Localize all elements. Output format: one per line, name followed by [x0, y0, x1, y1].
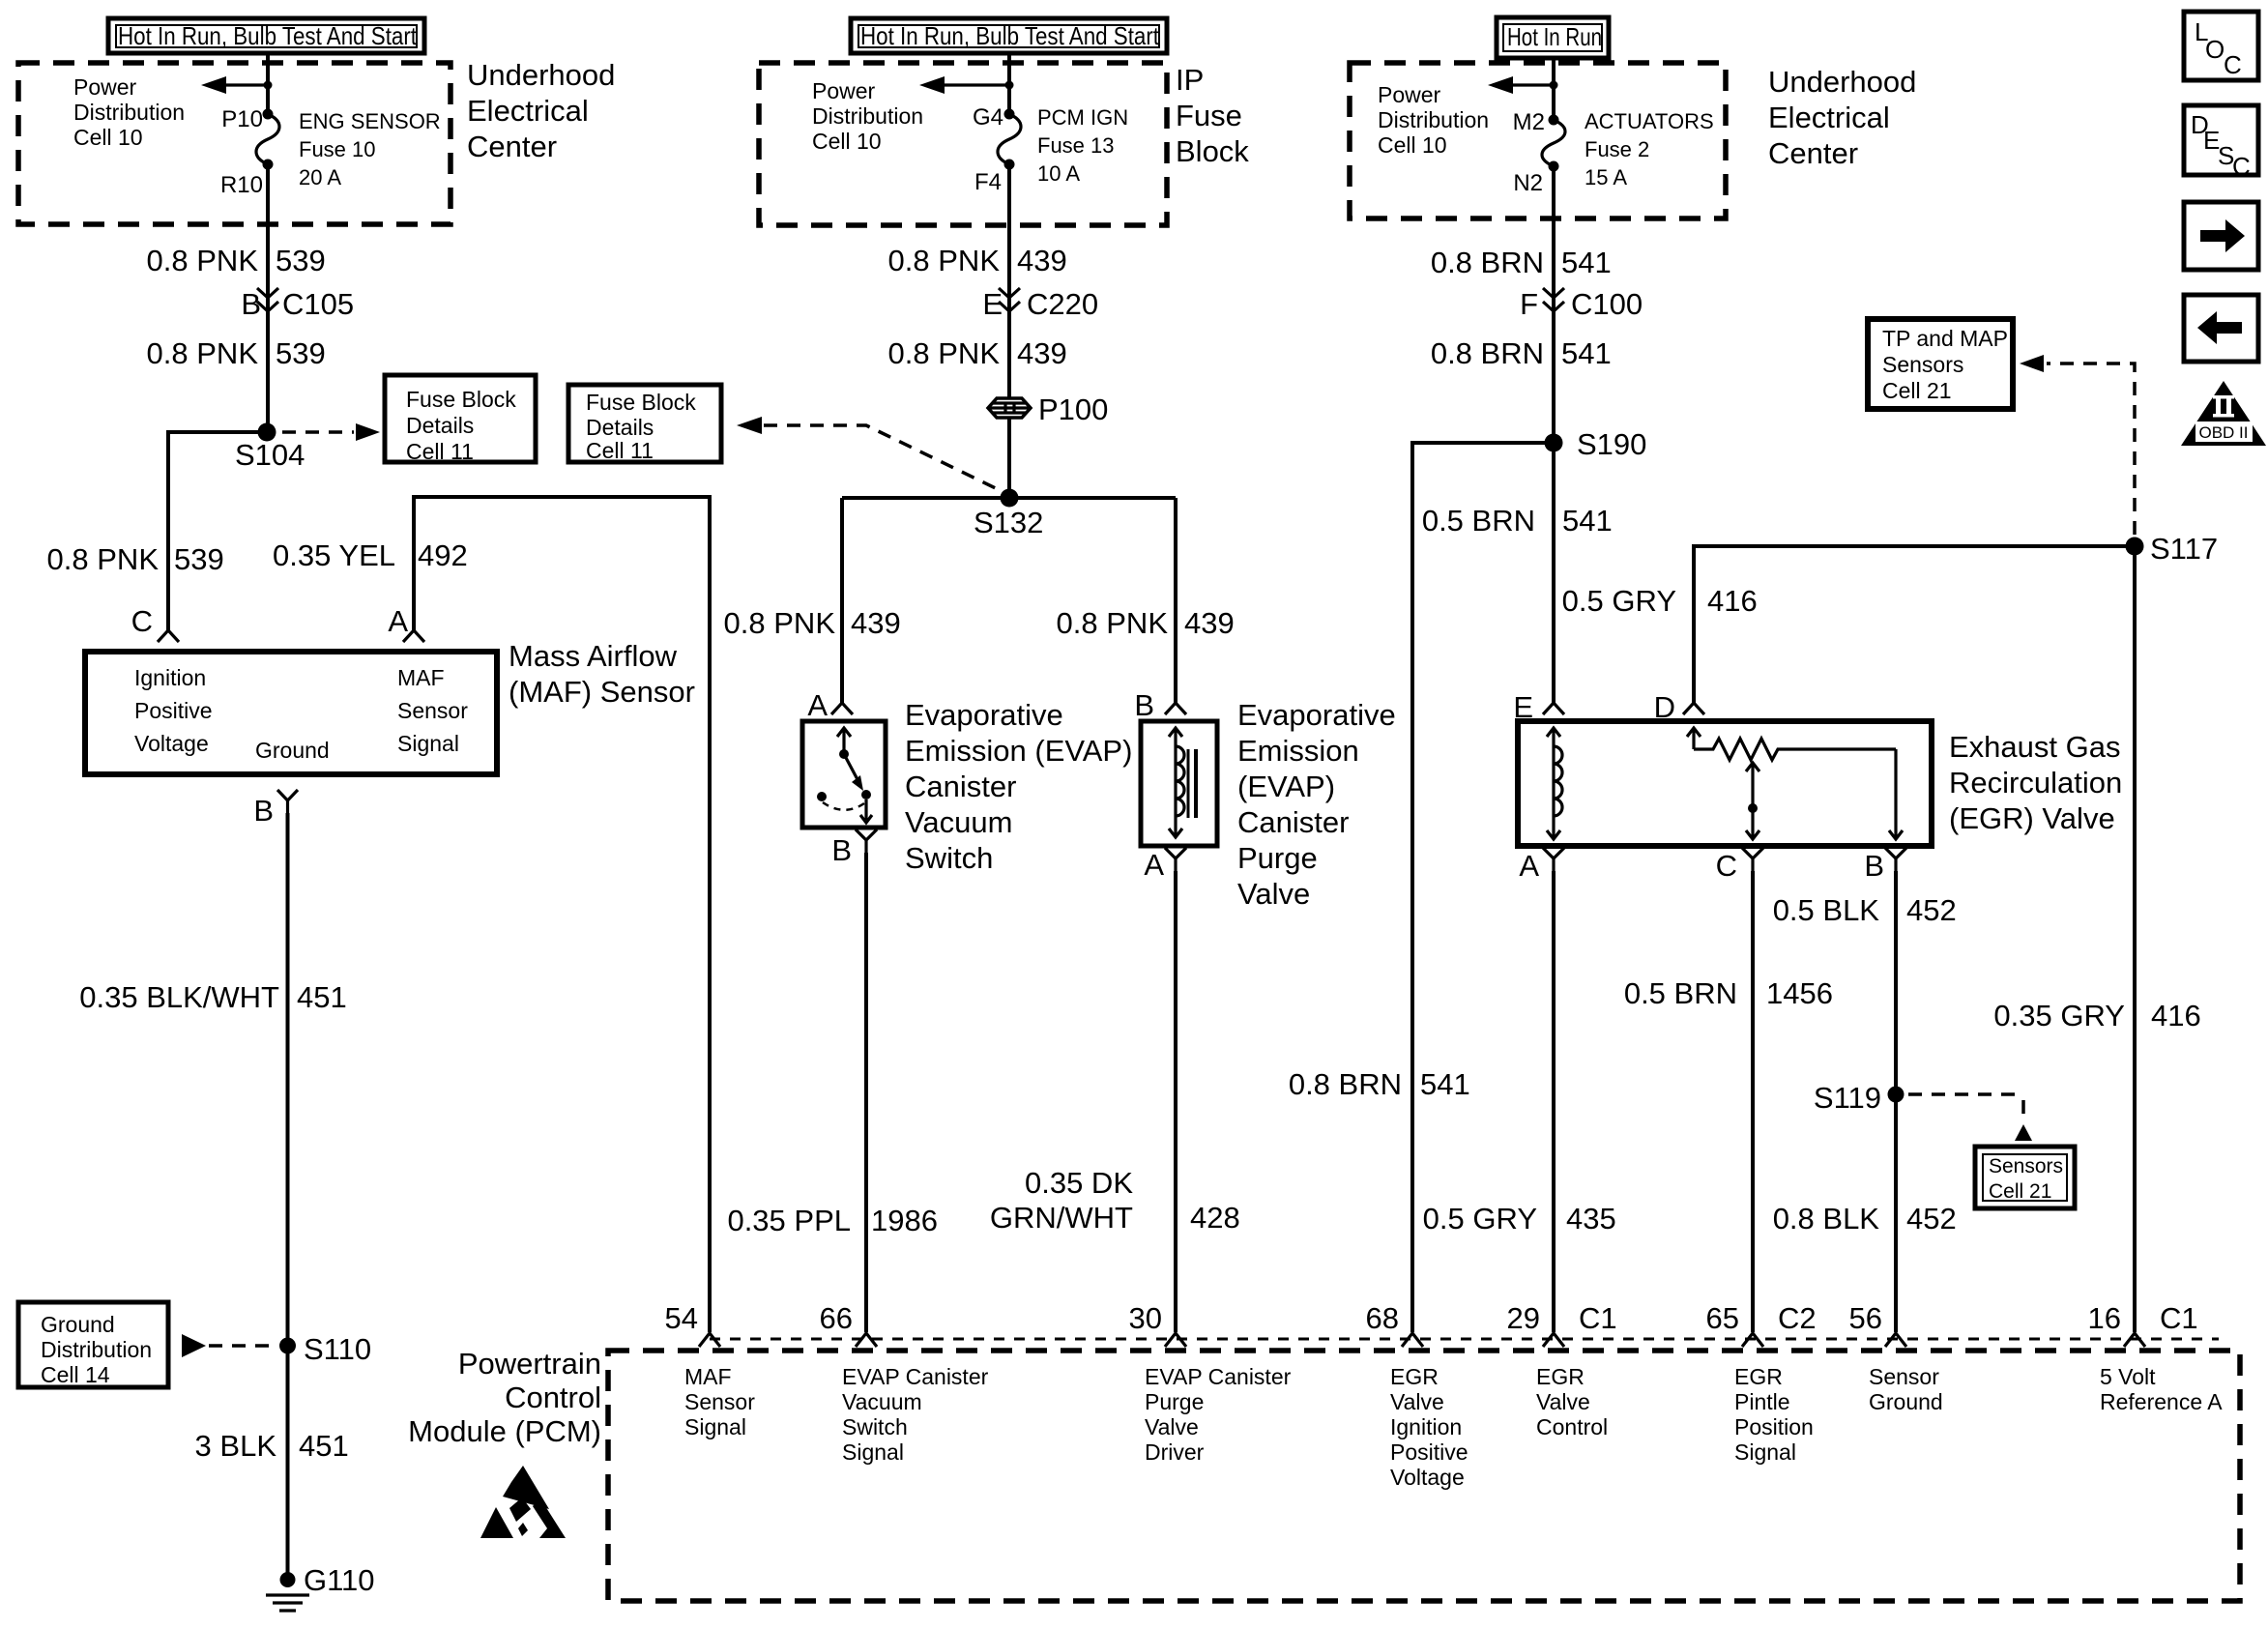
svg-text:Signal: Signal — [1734, 1439, 1796, 1465]
svg-text:0.8 PNK: 0.8 PNK — [147, 336, 259, 370]
pin D of EGR — [1683, 703, 1704, 714]
svg-text:Underhood: Underhood — [1768, 65, 1916, 99]
dashed arrow from S132 to second Fuse Block box — [737, 417, 762, 434]
svg-text:29: 29 — [1507, 1301, 1540, 1335]
pin 16 C1 chevron — [2124, 1333, 2145, 1347]
svg-text:0.8 PNK: 0.8 PNK — [147, 244, 259, 277]
svg-text:Valve: Valve — [1390, 1389, 1444, 1414]
svg-text:Cell 10: Cell 10 — [812, 129, 882, 154]
pin B of MAF — [253, 790, 298, 828]
svg-text:EVAP Canister: EVAP Canister — [842, 1364, 989, 1389]
svg-text:P100: P100 — [1038, 392, 1108, 426]
pin 29 label: EGR Valve Control — [1536, 1364, 1608, 1439]
fuse F2 ACTUATORS 15A — [1513, 109, 1714, 196]
pin 56 label: Sensor Ground — [1869, 1364, 1943, 1414]
splice S190 — [1545, 434, 1563, 452]
svg-text:Cell 11: Cell 11 — [406, 439, 474, 464]
LOC icon box — [2184, 12, 2258, 80]
label: Powertrain Control Module (PCM) — [408, 1347, 601, 1448]
pin 16 label: 5 Volt Reference A — [2100, 1364, 2223, 1414]
PCM connector thin dashed line — [710, 1338, 2219, 1341]
wire: S104 left branch down to MAF pin C — [168, 432, 267, 630]
dashed arrow to S110 — [182, 1334, 206, 1357]
label: Exhaust Gas Recirculation (EGR) Valve — [1949, 730, 2122, 835]
label box: Hot In Run, Bulb Test And Start (left) — [108, 18, 424, 53]
pin B of EGR — [1864, 848, 1906, 883]
connector C100 pin F — [1520, 287, 1643, 321]
wire: MAF A signal up and over to PCM pin 54 — [414, 497, 710, 1332]
svg-text:0.8 PNK: 0.8 PNK — [1057, 606, 1169, 640]
svg-text:0.8 PNK: 0.8 PNK — [888, 336, 1001, 370]
svg-text:EVAP Canister: EVAP Canister — [1145, 1364, 1292, 1389]
svg-text:54: 54 — [665, 1301, 698, 1335]
svg-text:Ignition: Ignition — [134, 665, 206, 690]
pin C of EGR — [1716, 848, 1763, 883]
svg-text:68: 68 — [1366, 1301, 1399, 1335]
svg-text:3 BLK: 3 BLK — [195, 1429, 277, 1463]
splice S132 — [1001, 489, 1019, 508]
wire: vacuum switch B to PCM 66 — [864, 853, 868, 1332]
svg-text:C100: C100 — [1571, 287, 1643, 321]
svg-text:Emission: Emission — [1237, 734, 1359, 768]
grommet P100 — [988, 392, 1108, 426]
svg-text:0.35 BLK/WHT: 0.35 BLK/WHT — [79, 980, 279, 1014]
pin 56 chevron — [1885, 1333, 1906, 1347]
svg-text:451: 451 — [299, 1429, 349, 1463]
svg-text:Distribution: Distribution — [1378, 107, 1489, 132]
svg-text:416: 416 — [1707, 584, 1758, 618]
label box: Ground Distribution Cell 14 — [18, 1302, 168, 1387]
svg-text:B: B — [831, 833, 852, 867]
svg-text:Distribution: Distribution — [73, 100, 185, 125]
svg-text:G4: G4 — [973, 104, 1003, 131]
wire: MAF ground down to G110 — [286, 813, 290, 1580]
svg-text:0.35 GRY: 0.35 GRY — [1993, 999, 2125, 1032]
OBD II icon — [2181, 381, 2266, 446]
svg-text:Driver: Driver — [1145, 1439, 1205, 1465]
svg-text:Power: Power — [812, 78, 876, 103]
svg-text:541: 541 — [1420, 1067, 1470, 1101]
svg-text:Details: Details — [586, 415, 654, 440]
svg-text:A: A — [1519, 849, 1539, 883]
svg-text:Fuse Block: Fuse Block — [586, 390, 696, 415]
wire: 0.8 PNK 539 from fuse to S104 — [266, 164, 270, 432]
svg-text:S104: S104 — [235, 438, 305, 472]
EVAP canister vacuum switch box — [802, 721, 886, 828]
PCM dashed box — [608, 1351, 2240, 1601]
dashed box: IP Fuse Block — [759, 63, 1167, 225]
svg-text:56: 56 — [1849, 1301, 1882, 1335]
svg-text:Center: Center — [467, 130, 557, 163]
svg-text:1456: 1456 — [1766, 976, 1833, 1010]
svg-text:452: 452 — [1906, 1202, 1957, 1236]
svg-text:Valve: Valve — [1145, 1414, 1199, 1439]
pin A of vacuum switch — [831, 703, 853, 714]
svg-text:Ground: Ground — [1869, 1389, 1943, 1414]
wire: S132 horizontal to EVAP branches — [842, 496, 1176, 500]
wire: EGR A to PCM 29 — [1552, 871, 1556, 1332]
fuse F13 PCM IGN 10A — [973, 104, 1128, 195]
label box: Fuse Block Details Cell 11 (first) — [385, 375, 536, 464]
svg-text:Center: Center — [1768, 136, 1858, 170]
svg-text:M2: M2 — [1513, 109, 1545, 135]
svg-text:Voltage: Voltage — [1390, 1465, 1465, 1490]
svg-text:E: E — [982, 287, 1003, 321]
svg-text:Ignition: Ignition — [1390, 1414, 1462, 1439]
dashed box: Underhood Electrical Center (left) — [18, 63, 451, 224]
svg-text:Valve: Valve — [1237, 877, 1310, 911]
right-arrow icon box — [2184, 202, 2258, 270]
svg-text:439: 439 — [1184, 606, 1235, 640]
svg-text:0.8 BRN: 0.8 BRN — [1431, 246, 1544, 279]
svg-text:Valve: Valve — [1536, 1389, 1590, 1414]
svg-text:0.8 BRN: 0.8 BRN — [1289, 1067, 1402, 1101]
svg-text:439: 439 — [851, 606, 901, 640]
svg-text:G110: G110 — [304, 1563, 375, 1597]
svg-text:0.35 PPL: 0.35 PPL — [727, 1204, 851, 1237]
svg-text:Position: Position — [1734, 1414, 1814, 1439]
pin E of EGR — [1543, 703, 1564, 714]
svg-text:Block: Block — [1176, 134, 1249, 168]
svg-text:539: 539 — [276, 336, 326, 370]
svg-text:Power: Power — [1378, 82, 1441, 107]
pin A of MAF — [403, 630, 424, 642]
svg-text:0.5 BRN: 0.5 BRN — [1624, 976, 1737, 1010]
label box: TP and MAP Sensors Cell 21 — [1868, 319, 2013, 409]
svg-text:Exhaust Gas: Exhaust Gas — [1949, 730, 2120, 764]
svg-text:Sensor: Sensor — [1869, 1364, 1939, 1389]
svg-text:Sensor: Sensor — [684, 1389, 755, 1414]
pin 30 chevron — [1165, 1333, 1186, 1347]
svg-text:Fuse: Fuse — [1176, 99, 1242, 132]
svg-text:Sensors: Sensors — [1989, 1155, 2063, 1177]
svg-text:B: B — [1864, 849, 1884, 883]
pin 66 label: EVAP Canister Vacuum Switch Signal — [842, 1364, 989, 1465]
svg-text:10 A: 10 A — [1037, 161, 1080, 186]
svg-text:0.5 BLK: 0.5 BLK — [1773, 893, 1880, 927]
pin 54 chevron — [699, 1333, 720, 1347]
svg-text:Switch: Switch — [905, 841, 993, 875]
svg-text:428: 428 — [1190, 1201, 1240, 1235]
EGR valve box — [1518, 721, 1932, 846]
svg-text:0.5 BRN: 0.5 BRN — [1422, 504, 1535, 538]
svg-text:Mass Airflow: Mass Airflow — [509, 639, 678, 673]
MAF sensor box — [85, 652, 497, 774]
svg-text:1986: 1986 — [871, 1204, 938, 1237]
svg-text:Fuse 13: Fuse 13 — [1037, 133, 1115, 158]
svg-text:0.35 DK: 0.35 DK — [1025, 1166, 1133, 1200]
svg-text:S132: S132 — [974, 506, 1043, 539]
svg-text:GRN/WHT: GRN/WHT — [990, 1201, 1133, 1235]
svg-text:452: 452 — [1906, 893, 1957, 927]
pin 66 chevron — [856, 1333, 877, 1347]
svg-text:Reference A: Reference A — [2100, 1389, 2223, 1414]
svg-text:S190: S190 — [1577, 427, 1646, 461]
svg-text:Switch: Switch — [842, 1414, 908, 1439]
svg-text:0.8 PNK: 0.8 PNK — [724, 606, 836, 640]
label: Evaporative Emission (EVAP) Canister Purge Valve — [1237, 698, 1396, 911]
svg-text:Signal: Signal — [684, 1414, 746, 1439]
svg-text:451: 451 — [297, 980, 347, 1014]
svg-text:B: B — [241, 287, 261, 321]
svg-text:F4: F4 — [974, 169, 1002, 195]
svg-text:Hot In Run, Bulb Test And Star: Hot In Run, Bulb Test And Start — [118, 21, 418, 50]
svg-text:Underhood: Underhood — [467, 58, 615, 92]
splice S119 — [1888, 1087, 1905, 1103]
svg-text:S110: S110 — [304, 1332, 371, 1366]
svg-text:Sensor: Sensor — [397, 698, 468, 723]
svg-text:435: 435 — [1566, 1202, 1616, 1236]
svg-text:IP: IP — [1176, 63, 1204, 97]
svg-text:Canister: Canister — [905, 770, 1016, 803]
svg-text:492: 492 — [418, 538, 468, 572]
svg-text:MAF: MAF — [684, 1364, 732, 1389]
wire: S117 down to PCM 16 — [2133, 546, 2137, 1332]
svg-text:(EVAP): (EVAP) — [1237, 770, 1335, 803]
label: Power Distribution Cell 10 (middle) — [812, 78, 923, 154]
EVAP canister purge valve box — [1141, 721, 1217, 846]
label: Underhood Electrical Center (right) — [1768, 65, 1916, 170]
svg-text:EGR: EGR — [1734, 1364, 1783, 1389]
svg-text:Hot In Run: Hot In Run — [1507, 22, 1602, 51]
splice S110 — [279, 1338, 296, 1354]
svg-text:15 A: 15 A — [1585, 165, 1627, 189]
svg-text:P10: P10 — [221, 106, 263, 132]
svg-text:Power: Power — [73, 74, 137, 100]
svg-text:Signal: Signal — [842, 1439, 904, 1465]
svg-text:Cell 11: Cell 11 — [586, 438, 654, 463]
ground G110 — [266, 1563, 375, 1611]
svg-text:16: 16 — [2088, 1301, 2121, 1335]
svg-text:A: A — [1144, 848, 1164, 882]
svg-text:541: 541 — [1561, 246, 1612, 279]
wire: branch to EVAP vacuum switch A — [840, 498, 844, 703]
svg-text:66: 66 — [820, 1301, 853, 1335]
svg-text:541: 541 — [1562, 504, 1613, 538]
left-arrow icon box — [2184, 295, 2258, 362]
wire: power distribution branch arrow (left) — [207, 83, 268, 86]
svg-text:C1: C1 — [2160, 1301, 2198, 1335]
svg-text:0.8 PNK: 0.8 PNK — [888, 244, 1001, 277]
wire: 0.8 BRN 541 from fuse through C100 to S190 and EGR E — [1552, 166, 1556, 703]
svg-text:Sensors: Sensors — [1882, 352, 1963, 377]
svg-text:Cell 21: Cell 21 — [1989, 1180, 2051, 1203]
dashed box: Underhood Electrical Center (right) — [1350, 63, 1726, 218]
svg-text:541: 541 — [1561, 336, 1612, 370]
svg-text:C220: C220 — [1027, 287, 1098, 321]
svg-text:ENG SENSOR: ENG SENSOR — [299, 109, 441, 133]
svg-text:Control: Control — [505, 1381, 601, 1414]
svg-text:Signal: Signal — [397, 731, 459, 756]
svg-text:Ground: Ground — [41, 1312, 115, 1337]
svg-text:Module (PCM): Module (PCM) — [408, 1414, 601, 1448]
svg-text:C: C — [2232, 152, 2251, 181]
wire: EGR B to PCM 56 through S119 — [1894, 871, 1898, 1332]
svg-text:Cell 10: Cell 10 — [73, 125, 143, 150]
svg-text:Fuse 2: Fuse 2 — [1585, 137, 1649, 161]
label: Underhood Electrical Center (left) — [467, 58, 615, 163]
svg-text:416: 416 — [2151, 999, 2201, 1032]
connector C220 pin E — [982, 287, 1098, 321]
svg-text:Voltage: Voltage — [134, 731, 209, 756]
svg-text:C1: C1 — [1579, 1301, 1617, 1335]
svg-text:OBD II: OBD II — [2198, 423, 2248, 442]
label box: Hot In Run, Bulb Test And Start (middle) — [851, 18, 1167, 53]
wire: purge valve A to PCM 30 — [1174, 871, 1178, 1332]
svg-text:5 Volt: 5 Volt — [2100, 1364, 2156, 1389]
svg-text:(EGR) Valve: (EGR) Valve — [1949, 801, 2115, 835]
pin 29 C1 chevron — [1543, 1333, 1564, 1347]
svg-text:C105: C105 — [282, 287, 354, 321]
svg-text:Distribution: Distribution — [812, 103, 923, 129]
svg-text:Fuse 10: Fuse 10 — [299, 137, 376, 161]
svg-text:30: 30 — [1129, 1301, 1162, 1335]
label box: Fuse Block Details Cell 11 (second) — [568, 385, 721, 463]
svg-text:Cell 14: Cell 14 — [41, 1362, 110, 1387]
label: IP Fuse Block — [1176, 63, 1249, 168]
svg-text:B: B — [253, 794, 274, 828]
svg-text:Evaporative: Evaporative — [905, 698, 1063, 732]
svg-text:Powertrain: Powertrain — [458, 1347, 601, 1381]
wire: 0.8 PNK 439 from fuse to P100 — [1007, 164, 1011, 398]
svg-text:C: C — [1716, 849, 1737, 883]
svg-text:N2: N2 — [1513, 170, 1543, 196]
fuse F10 ENG SENSOR 20A — [220, 106, 441, 198]
pin A of purge valve — [1144, 848, 1186, 882]
svg-text:S119: S119 — [1814, 1081, 1881, 1115]
label box: Sensors Cell 21 — [1975, 1147, 2075, 1208]
svg-text:S117: S117 — [2150, 532, 2218, 566]
svg-text:EGR: EGR — [1390, 1364, 1439, 1389]
svg-text:Purge: Purge — [1237, 841, 1318, 875]
svg-text:C2: C2 — [1778, 1301, 1817, 1335]
dashed reference to TP and MAP sensors — [2047, 363, 2135, 535]
wire: S190 branch left down to PCM 68 — [1412, 443, 1554, 1332]
wire: EGR C to PCM 65 — [1751, 871, 1755, 1332]
wire: power distribution branch arrow (middle) — [925, 83, 1009, 86]
label: Mass Airflow (MAF) Sensor — [509, 639, 695, 709]
svg-text:0.5 GRY: 0.5 GRY — [1562, 584, 1676, 618]
wire: feed into fuse ENG SENSOR — [266, 53, 270, 116]
svg-text:Fuse Block: Fuse Block — [406, 387, 516, 412]
svg-text:Vacuum: Vacuum — [842, 1389, 922, 1414]
svg-text:B: B — [1134, 688, 1154, 722]
svg-text:Distribution: Distribution — [41, 1337, 152, 1362]
svg-text:Cell 21: Cell 21 — [1882, 378, 1952, 403]
svg-text:539: 539 — [276, 244, 326, 277]
svg-text:Canister: Canister — [1237, 805, 1349, 839]
svg-text:Details: Details — [406, 413, 474, 438]
svg-text:R10: R10 — [220, 172, 263, 198]
svg-text:0.8 BLK: 0.8 BLK — [1773, 1202, 1880, 1236]
svg-text:439: 439 — [1017, 244, 1067, 277]
pin 30 label: EVAP Canister Purge Valve Driver — [1145, 1364, 1292, 1465]
pin A of EGR — [1519, 848, 1564, 883]
svg-text:O: O — [2205, 35, 2224, 64]
pin 65 label: EGR Pintle Position Signal — [1734, 1364, 1814, 1465]
label: Power Distribution Cell 10 (left) — [73, 74, 185, 150]
svg-text:ACTUATORS: ACTUATORS — [1585, 109, 1714, 133]
svg-text:20 A: 20 A — [299, 165, 341, 189]
svg-text:A: A — [388, 604, 408, 638]
label box: Hot In Run (right) — [1497, 17, 1609, 58]
svg-text:EGR: EGR — [1536, 1364, 1585, 1389]
DESC icon box — [2184, 105, 2258, 181]
wire: P100 to S132 — [1007, 418, 1011, 498]
pin 68 chevron — [1402, 1333, 1423, 1347]
pin 65 C2 chevron — [1742, 1333, 1763, 1347]
svg-text:Ground: Ground — [255, 738, 330, 763]
ESD symbol — [480, 1466, 566, 1538]
svg-text:Recirculation: Recirculation — [1949, 766, 2122, 799]
svg-text:C: C — [131, 604, 153, 638]
svg-text:0.5 GRY: 0.5 GRY — [1423, 1202, 1537, 1236]
svg-text:Electrical: Electrical — [1768, 101, 1890, 134]
label: Power Distribution Cell 10 (right) — [1378, 82, 1489, 158]
svg-text:A: A — [807, 688, 828, 722]
svg-text:Vacuum: Vacuum — [905, 805, 1012, 839]
label: Evaporative Emission (EVAP) Canister Vacuum Switch — [905, 698, 1132, 875]
svg-text:0.8 PNK: 0.8 PNK — [47, 542, 160, 576]
wire: power distribution branch arrow (right) — [1493, 83, 1554, 86]
svg-text:Emission (EVAP): Emission (EVAP) — [905, 734, 1132, 768]
svg-text:0.35 YEL: 0.35 YEL — [273, 538, 395, 572]
svg-text:Positive: Positive — [1390, 1439, 1468, 1465]
wire: S117 to EGR D — [1694, 546, 2135, 703]
connector C105 pin B — [241, 287, 354, 321]
svg-text:Pintle: Pintle — [1734, 1389, 1790, 1414]
svg-text:Hot In Run, Bulb Test And Star: Hot In Run, Bulb Test And Start — [860, 21, 1160, 50]
svg-text:65: 65 — [1706, 1301, 1739, 1335]
svg-text:TP and MAP: TP and MAP — [1882, 326, 2008, 351]
svg-text:Purge: Purge — [1145, 1389, 1204, 1414]
svg-text:Control: Control — [1536, 1414, 1608, 1439]
svg-text:F: F — [1520, 287, 1538, 321]
wire: branch to EVAP purge valve B — [1174, 498, 1178, 703]
svg-text:C: C — [2224, 50, 2242, 79]
dashed arrow S104 to Fuse Block Details — [282, 430, 354, 434]
svg-text:Electrical: Electrical — [467, 94, 589, 128]
splice S117 — [2126, 538, 2144, 556]
svg-text:Cell 10: Cell 10 — [1378, 132, 1447, 158]
pin 54 label: MAF Sensor Signal — [684, 1364, 755, 1439]
dashed reference to Sensors Cell 21 — [1908, 1092, 2021, 1096]
pin C of MAF — [158, 630, 179, 642]
svg-text:Evaporative: Evaporative — [1237, 698, 1396, 732]
svg-text:(MAF) Sensor: (MAF) Sensor — [509, 675, 695, 709]
svg-text:439: 439 — [1017, 336, 1067, 370]
wire: feed into fuse PCM IGN — [1007, 53, 1011, 116]
svg-text:0.8 BRN: 0.8 BRN — [1431, 336, 1544, 370]
pin 68 label: EGR Valve Ignition Positive Voltage — [1390, 1364, 1468, 1490]
svg-text:539: 539 — [174, 542, 224, 576]
svg-text:PCM IGN: PCM IGN — [1037, 105, 1128, 130]
pin B of purge valve — [1165, 703, 1186, 714]
pin B of vacuum switch — [831, 829, 877, 867]
wire: feed into fuse ACTUATORS — [1552, 58, 1556, 120]
svg-text:Positive: Positive — [134, 698, 213, 723]
splice S104 — [258, 423, 276, 442]
svg-text:MAF: MAF — [397, 665, 445, 690]
